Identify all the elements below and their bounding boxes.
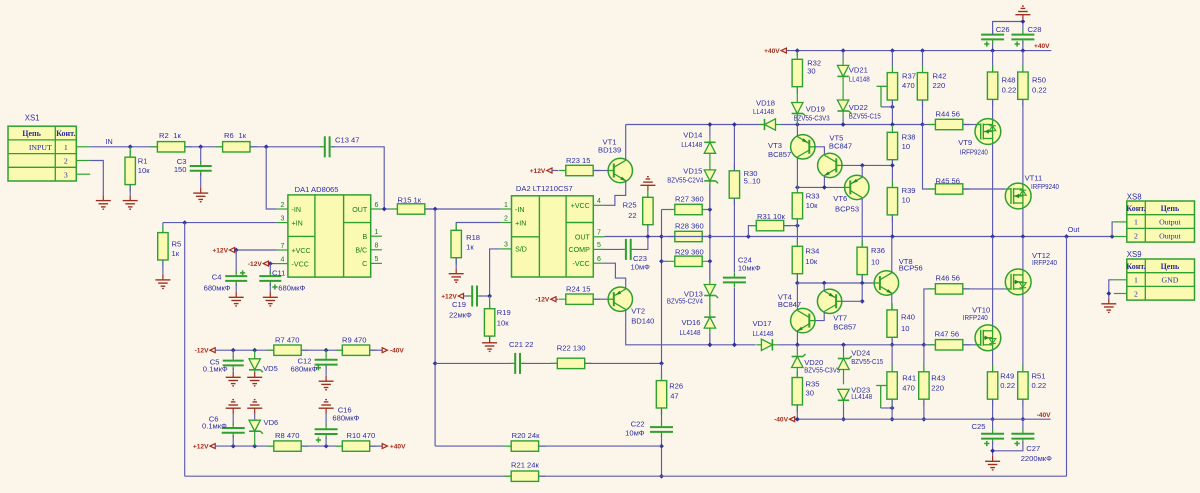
ground at C5 — [226, 372, 241, 386]
XS9 pin 2 stub — [1114, 293, 1127, 295]
svg-text:C4: C4 — [212, 272, 222, 281]
svg-text:R26: R26 — [669, 382, 683, 391]
wire VD13-VD16 gap — [709, 296, 711, 317]
wire IN net — [90, 146, 157, 148]
wire R20 right — [539, 445, 662, 447]
svg-text:IRFP240: IRFP240 — [1032, 258, 1057, 267]
ground at VD5 — [247, 372, 262, 386]
svg-text:0.1мкФ: 0.1мкФ — [202, 422, 227, 431]
svg-text:10: 10 — [871, 258, 879, 267]
svg-text:-12V: -12V — [535, 297, 550, 304]
wire R36 bottom — [861, 275, 863, 283]
wire C11 top — [269, 264, 271, 274]
svg-text:R36: R36 — [871, 246, 885, 255]
wire +IN line — [163, 222, 277, 224]
capacitor C19 — [467, 286, 482, 307]
svg-text:10мкФ: 10мкФ — [738, 263, 761, 272]
svg-text:VD5: VD5 — [263, 364, 278, 373]
wire VT4 emitter down — [796, 332, 798, 345]
ground at C4 — [229, 292, 244, 306]
wire C16 bottom — [325, 437, 327, 447]
inverted ground above R25 — [640, 177, 655, 191]
junction C3 — [198, 144, 203, 149]
junction C16 — [324, 444, 329, 449]
svg-text:150: 150 — [174, 165, 187, 174]
junction C12 — [324, 348, 329, 353]
resistor R47 — [928, 340, 969, 350]
svg-text:8: 8 — [375, 243, 379, 250]
resistor R42 — [917, 66, 927, 107]
svg-text:BZV55-C15: BZV55-C15 — [849, 112, 881, 121]
wire C6 bottom — [232, 435, 234, 446]
svg-text:BZV55-C3V3: BZV55-C3V3 — [804, 365, 840, 374]
wire R51 bottom — [1022, 399, 1024, 419]
wire VT8 collector up — [891, 237, 893, 273]
wire VT11 drain down — [1022, 209, 1024, 237]
label VD20 — [804, 358, 840, 375]
power flag +40V rail — [764, 48, 786, 55]
wire R39 bottom — [891, 215, 893, 237]
svg-text:R20 24к: R20 24к — [512, 431, 540, 440]
svg-text:Out: Out — [1068, 225, 1080, 234]
label VD24 — [851, 349, 883, 366]
junction VT4 emitter bias — [795, 342, 800, 347]
wire -12V to pin4 — [269, 263, 277, 265]
svg-text:2: 2 — [1134, 289, 1138, 298]
label R37 — [902, 72, 916, 90]
transistor VT1 — [608, 158, 632, 182]
svg-text:BD140: BD140 — [631, 316, 654, 325]
wire R37 top — [891, 51, 893, 66]
power flag +12V R23 — [530, 168, 552, 175]
svg-text:-IN: -IN — [515, 206, 524, 214]
svg-text:R33: R33 — [806, 191, 820, 200]
wire C22 down — [661, 434, 663, 476]
svg-text:C13 47: C13 47 — [335, 136, 360, 145]
label R39 — [902, 186, 916, 205]
label R24 15 — [566, 285, 591, 294]
wire R47 branch — [924, 344, 935, 346]
junction R42 bias — [920, 122, 925, 127]
wire C12 top — [325, 350, 327, 357]
svg-text:+VCC: +VCC — [571, 202, 590, 210]
net label +40V right — [1034, 43, 1050, 50]
svg-text:10мФ: 10мФ — [625, 428, 645, 437]
wire R5 top — [162, 223, 164, 233]
inverted ground above C6 — [226, 400, 241, 414]
wire R35 bottom — [796, 405, 798, 419]
resistor R25 — [643, 190, 653, 231]
wire rail to C28 — [1022, 41, 1024, 50]
wire DA1 out — [382, 208, 391, 210]
junction R30 — [732, 122, 737, 127]
svg-text:5: 5 — [375, 256, 379, 263]
junction right bus main — [707, 234, 712, 239]
capacitor C4 — [225, 270, 247, 286]
label R43 — [931, 374, 945, 393]
wire upper bias line — [626, 124, 764, 126]
wire VT1 collector up — [625, 125, 627, 160]
svg-text:1: 1 — [1134, 276, 1138, 285]
wire R31 right — [784, 225, 798, 227]
svg-text:30: 30 — [807, 67, 815, 76]
resistor R31 — [749, 220, 790, 230]
svg-text:680мкФ: 680мкФ — [291, 365, 318, 374]
wire DA2 out line — [605, 236, 662, 238]
svg-text:Конт.: Конт. — [1126, 204, 1145, 213]
junction VD21 rail — [841, 48, 846, 53]
wire VT8 emitter down — [891, 294, 893, 310]
svg-text:R2: R2 — [159, 131, 169, 140]
junction DA1 -IN branch — [264, 144, 269, 149]
label R38 — [902, 132, 916, 151]
DA2 left pins — [500, 202, 527, 254]
svg-text:10: 10 — [901, 324, 909, 333]
svg-text:BCP56: BCP56 — [899, 264, 923, 273]
svg-text:3: 3 — [64, 170, 68, 179]
svg-text:VT9: VT9 — [958, 138, 972, 147]
svg-text:VT2: VT2 — [631, 307, 645, 316]
wire R19 top — [489, 296, 491, 309]
wire R44 branch — [923, 124, 936, 126]
resistor R23 — [559, 165, 600, 175]
svg-text:+IN: +IN — [515, 219, 526, 227]
label R7 470 — [275, 336, 300, 345]
junction C25 gnd — [990, 448, 995, 453]
svg-text:DA2 LT1210CS7: DA2 LT1210CS7 — [516, 184, 573, 193]
wire R47 to VT10 gate — [963, 344, 975, 346]
wire C25 top — [992, 419, 994, 430]
label R35 — [806, 380, 820, 398]
svg-text:R18: R18 — [466, 233, 480, 242]
svg-text:Output: Output — [1159, 218, 1181, 227]
diode VD6 zener — [249, 420, 263, 434]
wire VD19 leads — [796, 87, 798, 125]
svg-text:0.22: 0.22 — [1032, 85, 1047, 94]
wire VT2 emitter to DA2 -VCC — [605, 263, 626, 288]
svg-text:+VCC: +VCC — [292, 247, 311, 255]
svg-text:LL4148: LL4148 — [753, 329, 774, 338]
label R31 10k — [757, 212, 785, 221]
wire R29 leads — [662, 260, 710, 262]
mosfet VT9 IRFP9240 — [975, 119, 1001, 145]
wire VT6 emitter up — [861, 165, 863, 176]
svg-text:1к: 1к — [173, 131, 181, 140]
connector XS1 table — [8, 126, 76, 181]
wire S/D down — [490, 249, 501, 296]
junction R39 main — [890, 234, 895, 239]
ground at R18 — [449, 268, 464, 282]
label VT9 — [958, 138, 988, 157]
wire Out feedback drop — [1066, 237, 1068, 477]
label VD5 — [263, 364, 278, 373]
power flag -40V psu — [382, 348, 404, 355]
label C22 — [625, 419, 645, 437]
wire R46 bus — [924, 289, 935, 345]
label VT11 — [1025, 173, 1059, 191]
wire C24 to lower line — [733, 288, 735, 345]
svg-text:C27: C27 — [1026, 444, 1040, 453]
power flag -12V psu — [195, 348, 216, 355]
svg-text:R8 470: R8 470 — [275, 431, 300, 440]
capacitor C21 — [510, 353, 525, 374]
wire R50 to VT11 — [1022, 99, 1024, 183]
wire +12V to R23 — [552, 170, 558, 172]
resistor R40 — [887, 303, 897, 344]
wire R5 to ground — [162, 260, 164, 275]
capacitor C23 — [621, 239, 636, 260]
label R8 470 — [275, 431, 300, 440]
ground at C11 — [263, 292, 278, 306]
wire R22 to bus — [585, 362, 662, 364]
label C12 — [291, 356, 318, 373]
connector XS1 label — [25, 114, 40, 123]
resistor R28 — [668, 231, 709, 241]
transistor VT4 — [791, 308, 815, 332]
wire VT12 source down — [1022, 294, 1024, 371]
junction R47 bias — [921, 342, 926, 347]
svg-text:VD17: VD17 — [753, 319, 772, 328]
diode VD19 zener — [792, 103, 806, 117]
wire VT7 collector to VT4 base — [815, 312, 824, 320]
svg-text:+IN: +IN — [292, 219, 303, 227]
svg-text:Конт.: Конт. — [56, 129, 75, 138]
svg-text:7: 7 — [597, 230, 601, 237]
svg-text:VD15: VD15 — [683, 166, 702, 175]
label R46 56 — [936, 273, 961, 282]
resistor R26 — [656, 374, 666, 415]
svg-text:680мкФ: 680мкФ — [278, 284, 305, 293]
wire VT7 base lead — [842, 300, 862, 302]
svg-text:680мкФ: 680мкФ — [332, 413, 359, 422]
svg-text:B: B — [362, 233, 367, 241]
label VT3 — [768, 141, 791, 159]
label R23 15 — [566, 156, 591, 165]
label R42 — [933, 72, 947, 90]
wire R31 tap up — [748, 226, 756, 237]
capacitor C22 — [650, 422, 673, 437]
wire upper bias line right — [781, 124, 923, 126]
svg-text:VD22: VD22 — [849, 103, 868, 112]
label VT10 — [963, 306, 990, 323]
label VD16 — [680, 318, 701, 337]
svg-text:R39: R39 — [902, 186, 916, 195]
resistor R51 — [1018, 365, 1028, 406]
connector XS9 label — [1127, 250, 1142, 259]
svg-text:-VCC: -VCC — [292, 260, 309, 268]
junction feedback tap — [182, 220, 187, 225]
label R25 — [623, 201, 637, 221]
svg-text:1: 1 — [375, 229, 379, 236]
svg-text:+40V: +40V — [764, 48, 780, 55]
resistor R18 — [451, 223, 461, 264]
svg-text:R22 130: R22 130 — [557, 343, 586, 352]
capacitor C24 — [723, 273, 746, 288]
wire R1 top — [129, 147, 131, 157]
label VD21 — [849, 65, 870, 83]
diode VD14 — [704, 142, 715, 153]
svg-text:BZV55-C2V4: BZV55-C2V4 — [667, 175, 703, 184]
svg-text:1: 1 — [64, 143, 68, 152]
wire VD5 leads — [254, 350, 256, 372]
wire R10 to +40V — [370, 445, 382, 447]
capacitor C13 — [320, 136, 335, 157]
wire R46 to VT12 gate — [963, 288, 1006, 290]
diode VD22 zener — [837, 100, 851, 114]
wire R48 top — [992, 51, 994, 72]
wire R34 top — [796, 226, 798, 247]
svg-text:R23 15: R23 15 — [566, 156, 591, 165]
wire left 360 bus — [661, 210, 663, 364]
wire R8 to R10 — [301, 445, 342, 447]
wire R41 top — [891, 345, 893, 372]
svg-text:XS1: XS1 — [25, 114, 40, 123]
svg-text:VD16: VD16 — [682, 318, 701, 327]
XS1 pin 2 stub — [76, 160, 90, 162]
svg-text:B/C: B/C — [355, 247, 367, 255]
power flag +12V psu — [193, 444, 215, 451]
svg-text:DA1 AD8065: DA1 AD8065 — [295, 185, 339, 194]
svg-text:LL4148: LL4148 — [680, 328, 701, 337]
junction R43 rail — [921, 417, 926, 422]
wire gnd to R25 — [647, 191, 649, 197]
diode VD16 — [704, 317, 715, 328]
wire main output line — [662, 236, 1114, 238]
svg-text:+40V: +40V — [390, 444, 406, 451]
op-amp DA2 body — [512, 196, 594, 277]
wire VT12 drain up — [1022, 237, 1024, 270]
resistor R39 — [887, 181, 897, 222]
svg-text:10мФ: 10мФ — [631, 262, 651, 271]
wire +40V rail — [787, 50, 1052, 52]
svg-text:1: 1 — [1134, 218, 1138, 227]
label C13 47 — [335, 136, 360, 145]
wire R6 to C13 — [250, 146, 323, 148]
junction C21 line — [433, 361, 438, 366]
svg-text:R27 360: R27 360 — [675, 194, 704, 203]
resistor R30 — [729, 164, 739, 205]
svg-text:R21 24к: R21 24к — [511, 460, 539, 469]
junction Out tap — [1064, 234, 1069, 239]
svg-text:R5: R5 — [172, 239, 182, 248]
label VD22 — [849, 103, 881, 121]
svg-text:3: 3 — [281, 215, 285, 222]
svg-text:0.22: 0.22 — [1000, 381, 1015, 390]
label C3 — [174, 157, 187, 174]
svg-text:R19: R19 — [497, 308, 511, 317]
wire C12 to ground — [325, 366, 327, 376]
svg-text:OUT: OUT — [575, 234, 591, 242]
wire R21 line right — [539, 475, 1067, 477]
junction DA1 out — [382, 207, 387, 212]
svg-text:R49: R49 — [1000, 371, 1014, 380]
wire R30 to C24 — [733, 198, 735, 272]
svg-text:10: 10 — [902, 142, 910, 151]
wire XS8 pin1 branch — [1112, 222, 1114, 237]
label R40 — [901, 313, 915, 333]
junction VD23 rail — [841, 417, 846, 422]
svg-text:R37: R37 — [902, 72, 916, 81]
wire VT3 emitter up — [796, 125, 798, 136]
svg-text:IN: IN — [106, 137, 113, 146]
svg-text:VD14: VD14 — [683, 131, 702, 140]
svg-text:XS8: XS8 — [1127, 193, 1142, 202]
junction VT7 emitter top — [822, 281, 827, 286]
DA1 right pins — [352, 202, 382, 268]
wire +12V rail — [216, 445, 274, 447]
junction R36/VT7 base — [860, 281, 865, 286]
svg-text:R1: R1 — [138, 156, 148, 165]
junction left bus main — [659, 234, 664, 239]
wire VD24-VD23 — [843, 345, 845, 385]
wire VT3 collector down — [796, 158, 798, 188]
label VT2 — [631, 307, 654, 326]
svg-text:IRFP240: IRFP240 — [963, 313, 988, 322]
wire -12V to R24 — [556, 298, 558, 300]
wire R20 line — [435, 445, 504, 447]
ground at XS9 — [1101, 299, 1116, 313]
svg-text:VD19: VD19 — [806, 104, 825, 113]
svg-text:4: 4 — [281, 256, 285, 263]
resistor R15 — [390, 204, 431, 214]
trimmer R37 — [887, 66, 897, 107]
junction VT9 main — [990, 234, 995, 239]
junction R42 rail — [920, 48, 925, 53]
capacitor C3 — [190, 161, 212, 176]
wire VT10 source down — [992, 350, 994, 372]
resistor R43 — [919, 365, 929, 406]
svg-text:R15 1к: R15 1к — [398, 195, 422, 204]
wire R33 bottom — [796, 219, 798, 226]
label R2 — [159, 131, 182, 140]
label C11 — [272, 269, 306, 293]
label C19 — [449, 300, 472, 320]
wire R23 to VT1 base — [593, 170, 608, 172]
net label IN — [106, 137, 113, 146]
label R20 24k — [512, 431, 540, 440]
junction R37 wiper — [890, 104, 895, 109]
wire C27 top — [1022, 419, 1024, 430]
svg-text:470: 470 — [902, 383, 915, 392]
svg-text:-IN: -IN — [292, 206, 301, 214]
resistor R22 — [550, 358, 591, 368]
svg-text:0.1мкФ: 0.1мкФ — [203, 365, 228, 374]
label VD15 — [667, 166, 703, 184]
wire VT3 base to VT5 — [815, 147, 824, 155]
wire R32 top — [796, 51, 798, 56]
diode VD15 zener — [704, 170, 718, 184]
net label -40V right — [1037, 412, 1052, 419]
svg-text:XS9: XS9 — [1127, 250, 1142, 259]
svg-text:5: 5 — [597, 242, 601, 249]
XS1 pin 1 stub — [76, 146, 90, 148]
svg-text:R28 360: R28 360 — [675, 222, 704, 231]
svg-text:IRFP9240: IRFP9240 — [960, 147, 988, 156]
junction R15 fb tap — [433, 207, 438, 212]
wire VD20 to R35 — [796, 345, 798, 378]
svg-text:R43: R43 — [931, 374, 945, 383]
svg-text:+12V: +12V — [193, 444, 209, 451]
wire VD21-VD22 — [842, 76, 844, 100]
resistor R50 — [1018, 65, 1028, 106]
wire R42col to R45 — [923, 125, 936, 190]
wire R2-R6 — [185, 146, 223, 148]
svg-text:R29 360: R29 360 — [675, 248, 704, 257]
DA2 right pins — [569, 198, 605, 268]
wire C13 to DA1 out — [332, 147, 384, 209]
wire R7 to R9 — [301, 349, 342, 351]
svg-text:R51: R51 — [1032, 371, 1046, 380]
